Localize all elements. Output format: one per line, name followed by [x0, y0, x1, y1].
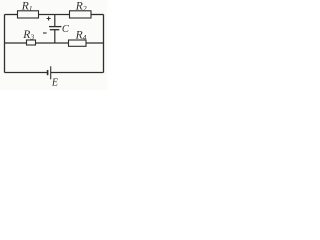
battery E long plate	[50, 66, 52, 79]
wire left vertical	[4, 15, 6, 73]
resistor R2	[70, 11, 92, 18]
wire middle-centre segment	[36, 42, 69, 44]
capacitor C top plate	[49, 26, 61, 28]
svg-text:E: E	[51, 77, 58, 88]
wire middle-right segment	[86, 42, 104, 44]
wire middle-left segment	[5, 42, 27, 44]
capacitor C bottom plate	[50, 29, 60, 31]
plus sign of capacitor	[47, 17, 51, 21]
wire top-right segment	[91, 14, 104, 16]
capacitor C bottom lead	[54, 30, 56, 43]
resistor R3	[27, 40, 36, 45]
wire bottom-left segment	[5, 72, 48, 74]
wire right vertical	[103, 15, 105, 73]
resistor R1	[18, 11, 39, 18]
wire bottom-right segment	[51, 72, 104, 74]
minus sign of capacitor	[43, 32, 47, 34]
battery E short plate	[47, 70, 49, 75]
svg-text:C: C	[62, 24, 70, 35]
wire top-middle segment	[39, 14, 70, 16]
capacitor C top lead	[54, 15, 56, 26]
wire top-left segment	[5, 14, 18, 16]
resistor R4	[69, 40, 87, 46]
